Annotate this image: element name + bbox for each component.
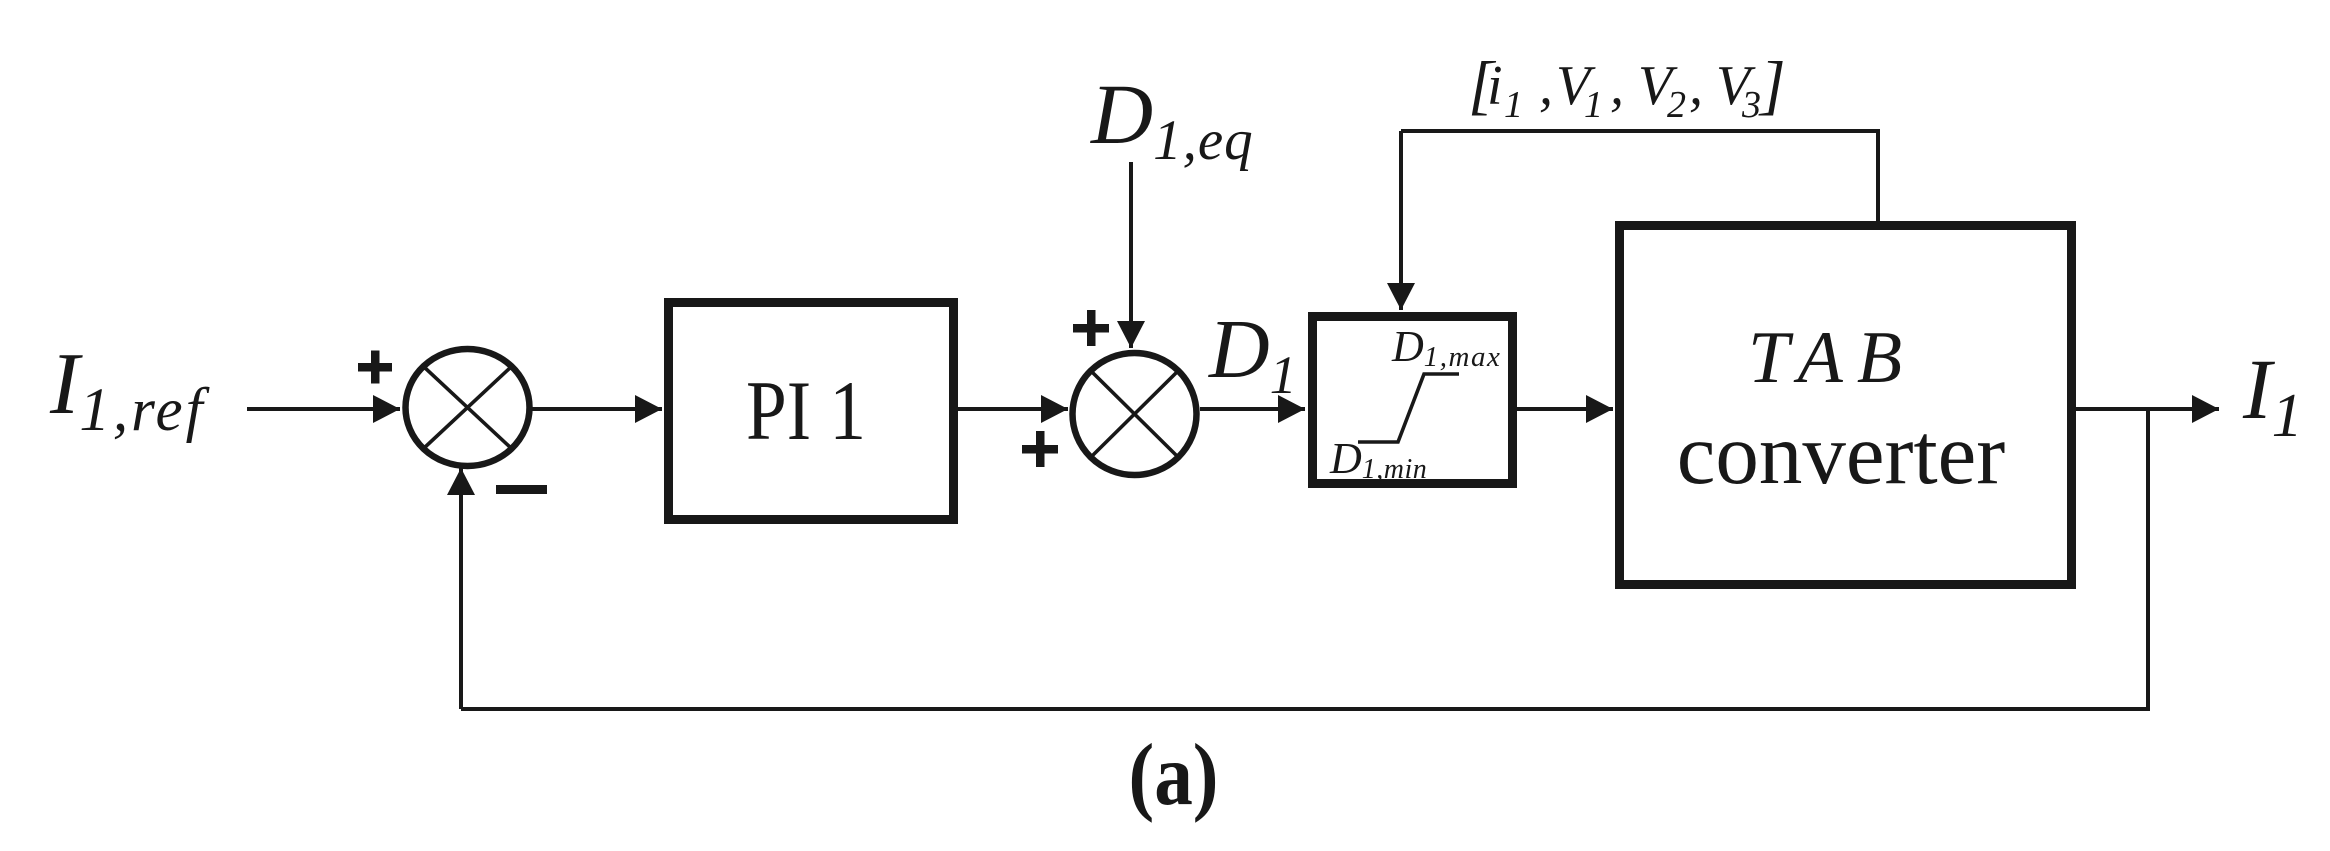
- svg-text:TAB: TAB: [1748, 317, 1916, 399]
- svg-text:D1,eq: D1,eq: [1090, 66, 1254, 172]
- svg-text:D1: D1: [1208, 303, 1297, 405]
- svg-text:I1: I1: [2242, 341, 2303, 450]
- svg-text:D1,max: D1,max: [1391, 322, 1501, 373]
- svg-text:(a): (a): [1129, 727, 1219, 824]
- svg-text:[i1,V1,V2,V3]: [i1,V1,V2,V3]: [1468, 49, 1786, 127]
- svg-text:I1,ref: I1,ref: [49, 336, 210, 444]
- svg-text:converter: converter: [1677, 405, 2005, 502]
- svg-text:PI 1: PI 1: [746, 364, 866, 458]
